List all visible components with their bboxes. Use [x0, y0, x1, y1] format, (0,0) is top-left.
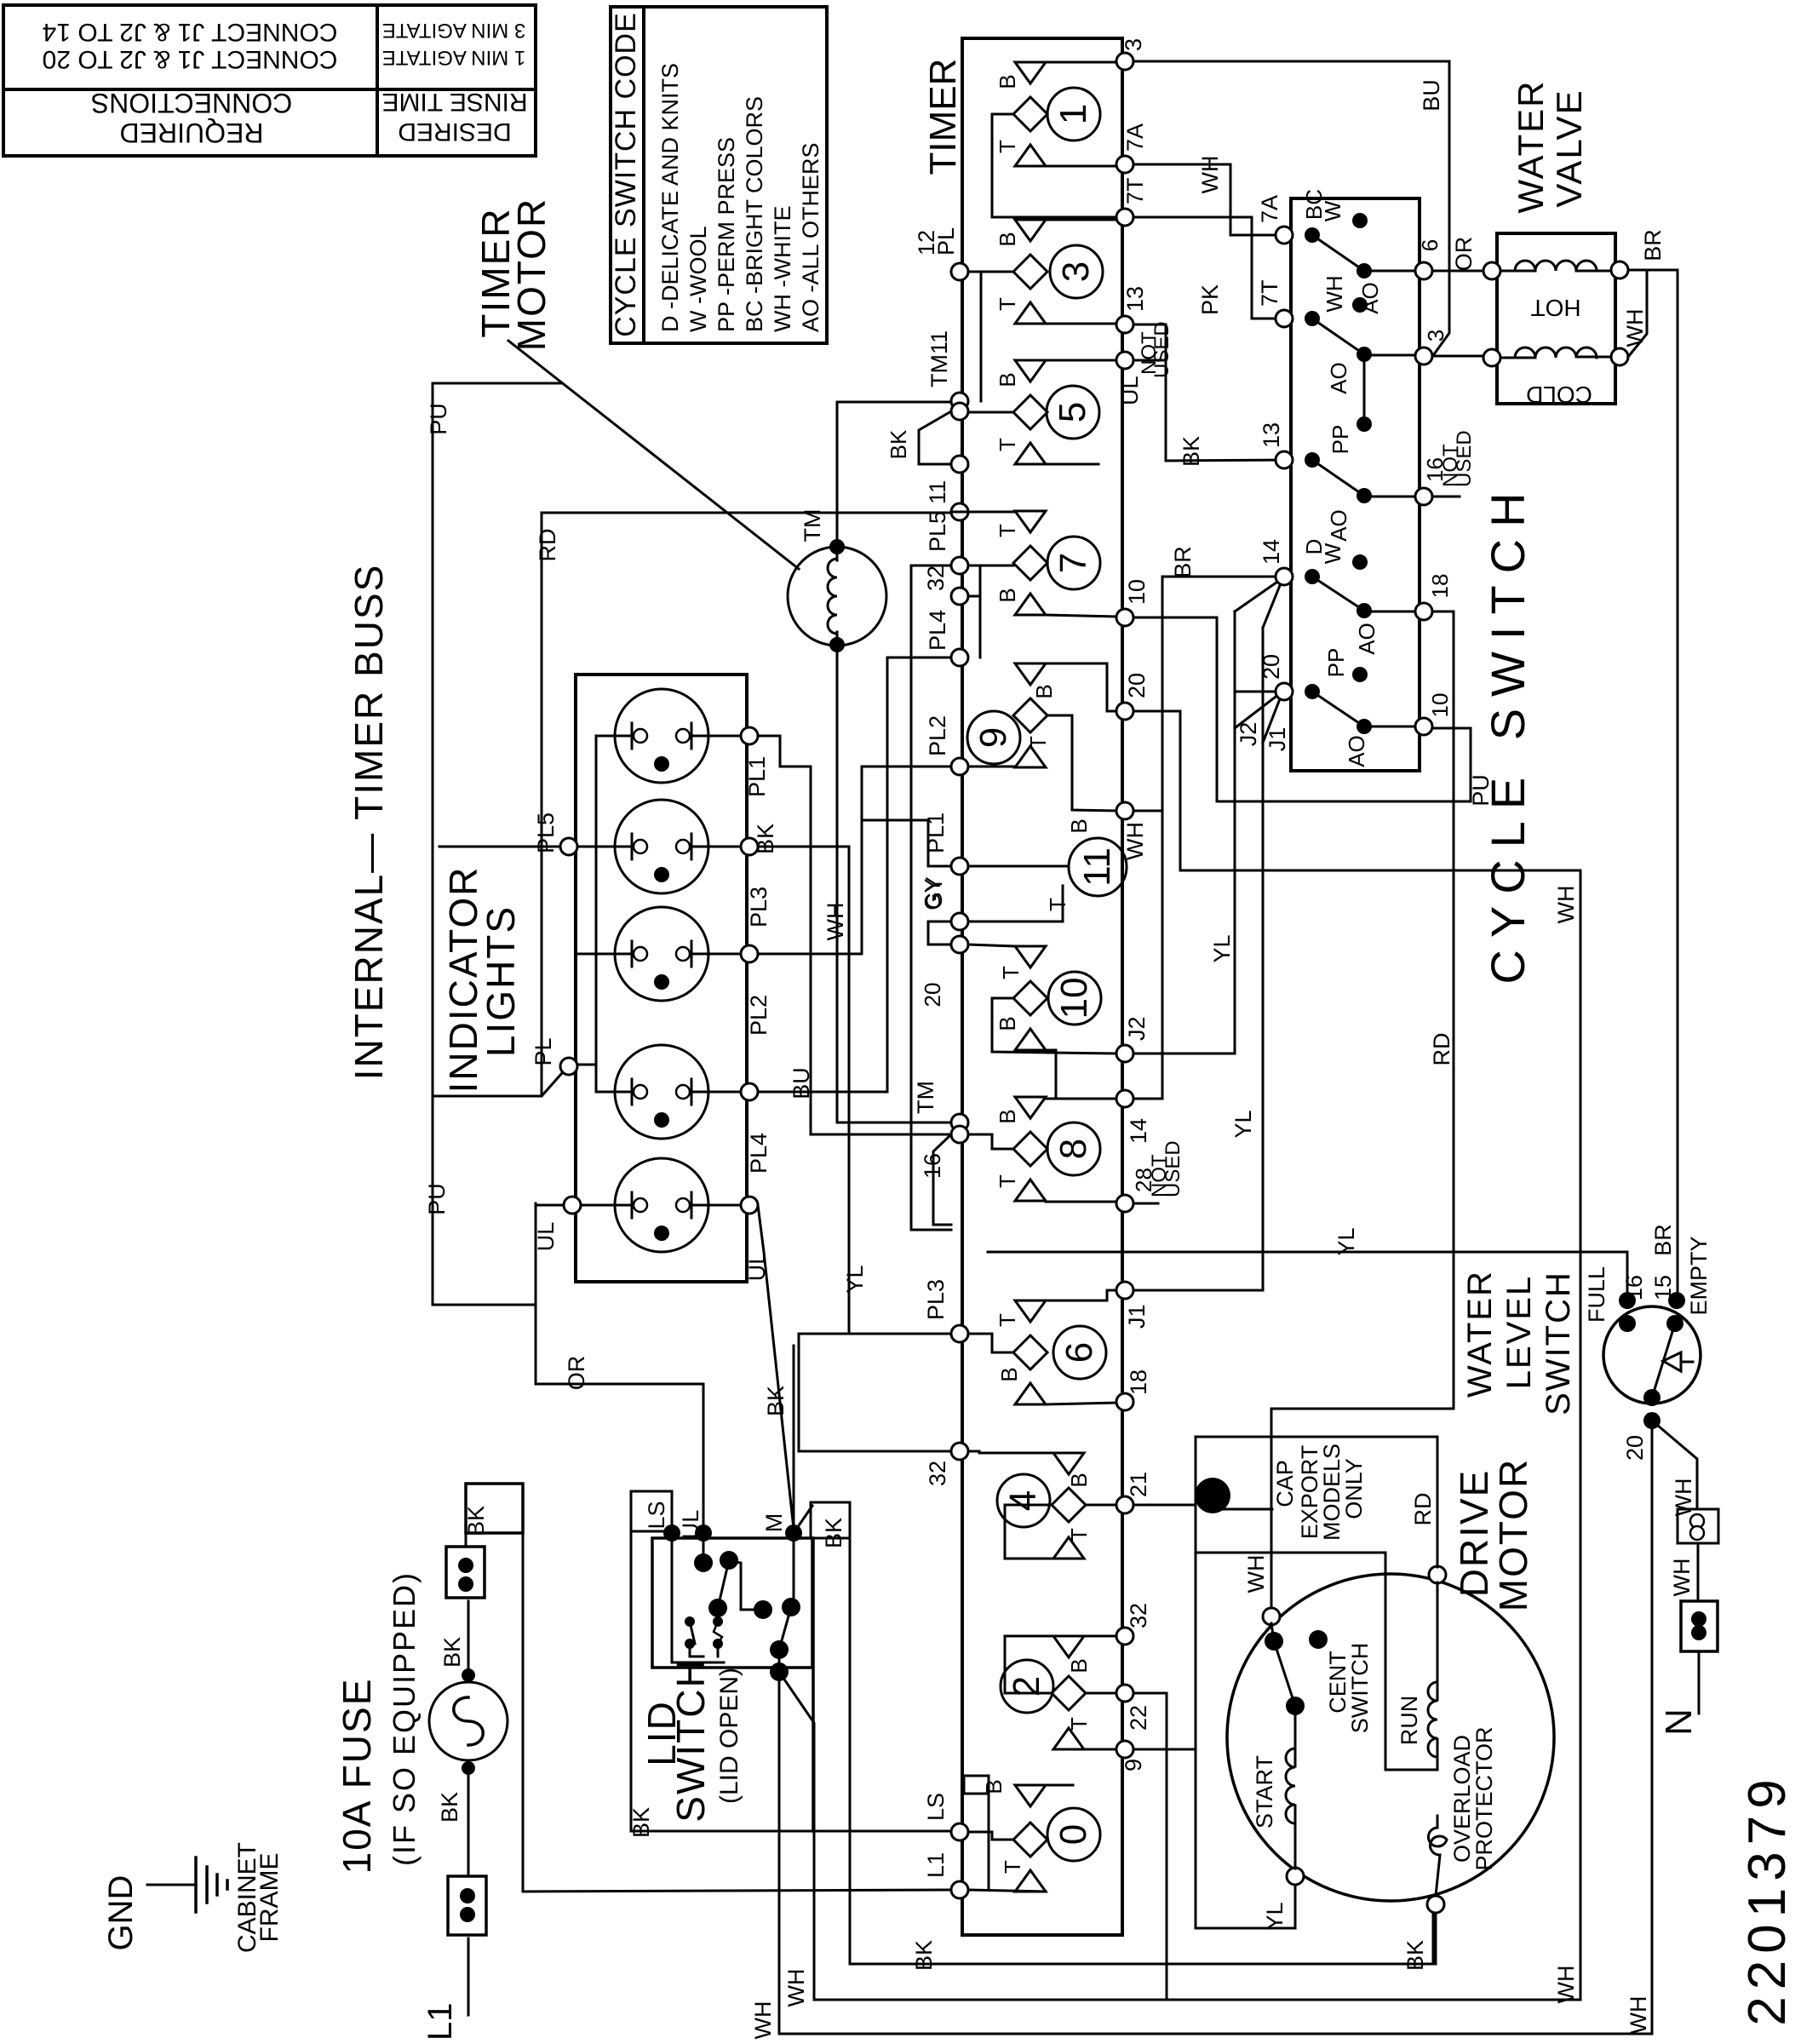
- svg-text:7T: 7T: [1122, 177, 1148, 204]
- svg-text:LS: LS: [923, 1793, 949, 1821]
- svg-text:T: T: [1045, 898, 1070, 911]
- svg-text:32: 32: [1126, 1603, 1151, 1628]
- svg-text:USED: USED: [1453, 430, 1476, 487]
- svg-text:4: 4: [1002, 1490, 1044, 1511]
- svg-text:L1: L1: [923, 1852, 949, 1878]
- svg-text:YL: YL: [1262, 1902, 1288, 1930]
- svg-text:CYCLE SWITCH CODE: CYCLE SWITCH CODE: [610, 12, 642, 337]
- svg-text:W: W: [1320, 543, 1345, 564]
- svg-text:DESIRED: DESIRED: [398, 118, 511, 146]
- svg-text:SWITCH: SWITCH: [1540, 1271, 1577, 1415]
- svg-text:REQUIRED: REQUIRED: [120, 118, 264, 148]
- svg-text:WH: WH: [1322, 275, 1347, 312]
- svg-text:J1: J1: [1265, 727, 1290, 752]
- svg-text:T: T: [1066, 1717, 1092, 1731]
- svg-text:WATER: WATER: [1511, 80, 1551, 214]
- svg-text:B: B: [1066, 818, 1092, 833]
- svg-text:BK: BK: [911, 1940, 937, 1971]
- svg-text:WH: WH: [1626, 1996, 1651, 2035]
- svg-text:11: 11: [925, 480, 950, 504]
- svg-text:3: 3: [1121, 38, 1146, 51]
- svg-text:T: T: [1066, 1528, 1092, 1542]
- svg-text:AO: AO: [1326, 362, 1351, 394]
- svg-text:B: B: [995, 232, 1020, 246]
- svg-text:WH: WH: [1197, 156, 1223, 194]
- svg-text:20: 20: [1124, 673, 1150, 698]
- svg-text:RD: RD: [1429, 1033, 1454, 1066]
- svg-text:WH: WH: [783, 1969, 809, 2007]
- svg-text:T: T: [1025, 736, 1051, 749]
- svg-text:10: 10: [1427, 693, 1453, 718]
- svg-text:BK: BK: [439, 1637, 465, 1668]
- svg-text:RUN: RUN: [1397, 1696, 1422, 1746]
- svg-text:CAP: CAP: [1272, 1460, 1298, 1507]
- svg-text:T: T: [995, 438, 1020, 451]
- svg-text:B: B: [1066, 1658, 1092, 1673]
- svg-text:WH: WH: [1553, 886, 1579, 924]
- svg-text:7A: 7A: [1257, 195, 1282, 223]
- svg-text:RD: RD: [535, 529, 560, 562]
- svg-text:PL2: PL2: [746, 995, 771, 1036]
- svg-text:BK: BK: [886, 429, 911, 459]
- svg-text:3: 3: [1055, 261, 1097, 282]
- svg-text:B: B: [995, 588, 1020, 602]
- svg-text:BC -BRIGHT COLORS: BC -BRIGHT COLORS: [742, 96, 767, 332]
- svg-text:CONNECT J1 & J2 TO 20: CONNECT J1 & J2 TO 20: [43, 45, 338, 73]
- svg-text:YL: YL: [1230, 1110, 1256, 1138]
- svg-text:USED: USED: [1150, 321, 1173, 378]
- svg-text:BK: BK: [821, 1518, 846, 1548]
- svg-text:START: START: [1252, 1755, 1277, 1829]
- svg-text:BR: BR: [1170, 546, 1196, 578]
- svg-text:B: B: [981, 1779, 1007, 1794]
- svg-text:B: B: [995, 372, 1020, 387]
- svg-text:PL2: PL2: [925, 715, 950, 756]
- svg-text:WH: WH: [1553, 1966, 1579, 2004]
- svg-text:M: M: [761, 1513, 787, 1533]
- svg-text:COLD: COLD: [1526, 382, 1592, 408]
- svg-text:OR: OR: [564, 1356, 589, 1391]
- svg-text:10: 10: [1124, 579, 1150, 605]
- svg-text:J2: J2: [1124, 1016, 1150, 1041]
- svg-text:DRIVE: DRIVE: [1452, 1469, 1496, 1598]
- svg-text:YL: YL: [1334, 1227, 1359, 1255]
- svg-text:LS: LS: [644, 1501, 669, 1529]
- svg-text:10: 10: [1053, 978, 1095, 1019]
- svg-text:1 MIN AGITATE: 1 MIN AGITATE: [382, 46, 525, 69]
- svg-text:11: 11: [1076, 847, 1118, 887]
- svg-text:WH -WHITE: WH -WHITE: [770, 206, 795, 332]
- svg-text:YL: YL: [842, 1265, 868, 1293]
- svg-text:WH: WH: [1671, 1478, 1696, 1517]
- svg-text:BK: BK: [753, 824, 778, 854]
- svg-text:USED: USED: [1161, 1140, 1184, 1197]
- svg-text:LEVEL: LEVEL: [1500, 1275, 1538, 1390]
- svg-text:AO -ALL OTHERS: AO -ALL OTHERS: [798, 142, 823, 332]
- svg-text:SWITCH: SWITCH: [668, 1657, 713, 1822]
- svg-text:BR: BR: [1650, 1224, 1676, 1256]
- svg-text:B: B: [995, 1109, 1020, 1123]
- svg-text:FRAME: FRAME: [255, 1853, 284, 1943]
- svg-text:22: 22: [1126, 1705, 1151, 1731]
- svg-text:PL1: PL1: [744, 756, 770, 797]
- svg-text:WATER: WATER: [1461, 1270, 1499, 1398]
- svg-text:W -WOOL: W -WOOL: [685, 227, 711, 332]
- svg-text:5: 5: [1052, 402, 1093, 422]
- svg-text:6: 6: [1417, 239, 1443, 251]
- svg-text:PP: PP: [1328, 425, 1353, 455]
- svg-text:PK: PK: [1197, 284, 1223, 315]
- svg-text:PL4: PL4: [925, 610, 950, 651]
- svg-text:RD: RD: [1410, 1493, 1436, 1526]
- svg-text:UL: UL: [1117, 376, 1143, 405]
- svg-text:PL3: PL3: [923, 1279, 949, 1320]
- svg-text:14: 14: [1259, 539, 1284, 565]
- svg-text:WH: WH: [1243, 1555, 1269, 1593]
- svg-text:B: B: [1066, 1473, 1092, 1487]
- svg-text:BK: BK: [763, 1386, 789, 1416]
- svg-text:SWITCH: SWITCH: [1347, 1643, 1373, 1733]
- svg-text:T: T: [998, 966, 1024, 979]
- svg-text:7A: 7A: [1122, 123, 1148, 152]
- svg-text:OR: OR: [1451, 237, 1477, 272]
- svg-text:LIGHTS: LIGHTS: [479, 905, 523, 1057]
- svg-text:18: 18: [1427, 574, 1453, 599]
- svg-text:N: N: [1658, 1708, 1700, 1736]
- svg-text:0: 0: [1052, 1824, 1094, 1845]
- svg-text:PROTECTOR: PROTECTOR: [1471, 1726, 1497, 1870]
- svg-text:YL: YL: [1209, 934, 1235, 962]
- svg-text:WH: WH: [1622, 309, 1648, 347]
- svg-text:20: 20: [1622, 1435, 1648, 1461]
- svg-text:PU: PU: [424, 1183, 450, 1215]
- svg-text:HOT: HOT: [1530, 295, 1580, 321]
- svg-text:T: T: [995, 524, 1020, 537]
- svg-text:GY: GY: [920, 878, 945, 910]
- svg-text:D -DELICATE AND KNITS: D -DELICATE AND KNITS: [657, 63, 683, 332]
- svg-text:MOTOR: MOTOR: [509, 198, 553, 351]
- svg-text:B: B: [1031, 684, 1057, 698]
- svg-text:PP -PERM PRESS: PP -PERM PRESS: [714, 137, 739, 332]
- svg-text:10A FUSE: 10A FUSE: [335, 1678, 379, 1875]
- svg-text:TM: TM: [913, 1081, 938, 1114]
- svg-text:W: W: [1320, 200, 1345, 221]
- svg-text:J1: J1: [1124, 1304, 1150, 1329]
- svg-text:13: 13: [1259, 422, 1284, 448]
- svg-text:INTERNAL— TIMER BUSS: INTERNAL— TIMER BUSS: [347, 564, 391, 1081]
- svg-text:BK: BK: [463, 1506, 489, 1536]
- svg-text:18: 18: [1126, 1369, 1151, 1395]
- svg-text:PP: PP: [1323, 648, 1349, 678]
- svg-text:CONNECTIONS: CONNECTIONS: [91, 88, 292, 118]
- svg-text:PL: PL: [531, 1037, 556, 1065]
- svg-text:PL: PL: [933, 227, 959, 255]
- svg-text:PL3: PL3: [746, 887, 771, 927]
- svg-text:T: T: [995, 1313, 1020, 1327]
- svg-text:AO: AO: [1354, 623, 1379, 655]
- svg-text:(LID OPEN): (LID OPEN): [715, 1668, 743, 1804]
- svg-text:WH: WH: [1122, 822, 1148, 860]
- svg-text:WH: WH: [823, 903, 848, 941]
- svg-text:16: 16: [1621, 1275, 1647, 1300]
- svg-text:RINSE TIME: RINSE TIME: [381, 88, 527, 116]
- svg-text:FULL: FULL: [1584, 1266, 1609, 1323]
- svg-text:WH: WH: [750, 2001, 776, 2040]
- svg-text:GND: GND: [102, 1875, 140, 1951]
- svg-text:6: 6: [1058, 1342, 1100, 1363]
- svg-text:8: 8: [1052, 1139, 1094, 1159]
- svg-text:13: 13: [1122, 286, 1148, 312]
- svg-text:3: 3: [1423, 330, 1448, 342]
- svg-text:EMPTY: EMPTY: [1686, 1236, 1712, 1315]
- svg-text:32: 32: [923, 566, 949, 591]
- svg-text:20: 20: [1259, 654, 1284, 680]
- svg-text:(IF SO EQUIPPED): (IF SO EQUIPPED): [387, 1571, 422, 1866]
- svg-text:14: 14: [1126, 1118, 1151, 1144]
- svg-text:1: 1: [1052, 104, 1094, 124]
- svg-text:B: B: [995, 74, 1020, 89]
- svg-text:TIMER: TIMER: [922, 59, 964, 175]
- svg-text:TM11: TM11: [926, 330, 952, 388]
- svg-text:CYCLE SWITCH: CYCLE SWITCH: [1481, 480, 1534, 984]
- svg-text:BR: BR: [1640, 229, 1666, 261]
- svg-text:15: 15: [1650, 1275, 1676, 1300]
- svg-text:32: 32: [925, 1461, 950, 1486]
- svg-text:WH: WH: [1669, 1559, 1695, 1597]
- svg-text:CONNECT J1 & J2 TO 14: CONNECT J1 & J2 TO 14: [43, 18, 338, 46]
- svg-text:L1: L1: [422, 2003, 459, 2041]
- svg-text:BK: BK: [1402, 1940, 1428, 1971]
- svg-text:T: T: [995, 140, 1020, 153]
- svg-text:VALVE: VALVE: [1549, 89, 1589, 207]
- svg-text:B: B: [996, 1367, 1022, 1381]
- svg-text:AO: AO: [1326, 509, 1351, 542]
- svg-text:T: T: [1000, 1860, 1025, 1874]
- svg-text:9: 9: [972, 727, 1014, 748]
- svg-text:PU: PU: [426, 403, 451, 435]
- svg-text:PL4: PL4: [746, 1133, 771, 1174]
- svg-text:BK: BK: [1179, 436, 1204, 467]
- svg-text:BU: BU: [1419, 79, 1444, 112]
- svg-text:20: 20: [920, 983, 945, 1008]
- svg-text:AO: AO: [1344, 735, 1369, 767]
- svg-text:9: 9: [1121, 1759, 1146, 1771]
- svg-text:T: T: [995, 1174, 1020, 1188]
- svg-text:BU: BU: [789, 1067, 814, 1100]
- svg-text:7T: 7T: [1257, 279, 1282, 307]
- svg-text:7: 7: [1052, 553, 1094, 573]
- svg-text:J2: J2: [1236, 722, 1261, 747]
- svg-text:21: 21: [1126, 1472, 1151, 1497]
- svg-text:PL5: PL5: [925, 511, 950, 552]
- svg-text:ONLY: ONLY: [1341, 1458, 1367, 1519]
- svg-text:B: B: [995, 1016, 1020, 1031]
- svg-text:3 MIN AGITATE: 3 MIN AGITATE: [382, 19, 525, 42]
- svg-text:MOTOR: MOTOR: [1491, 1458, 1535, 1611]
- svg-text:2201379: 2201379: [1738, 1772, 1797, 2025]
- svg-text:BK: BK: [437, 1792, 462, 1823]
- svg-text:T: T: [995, 297, 1020, 311]
